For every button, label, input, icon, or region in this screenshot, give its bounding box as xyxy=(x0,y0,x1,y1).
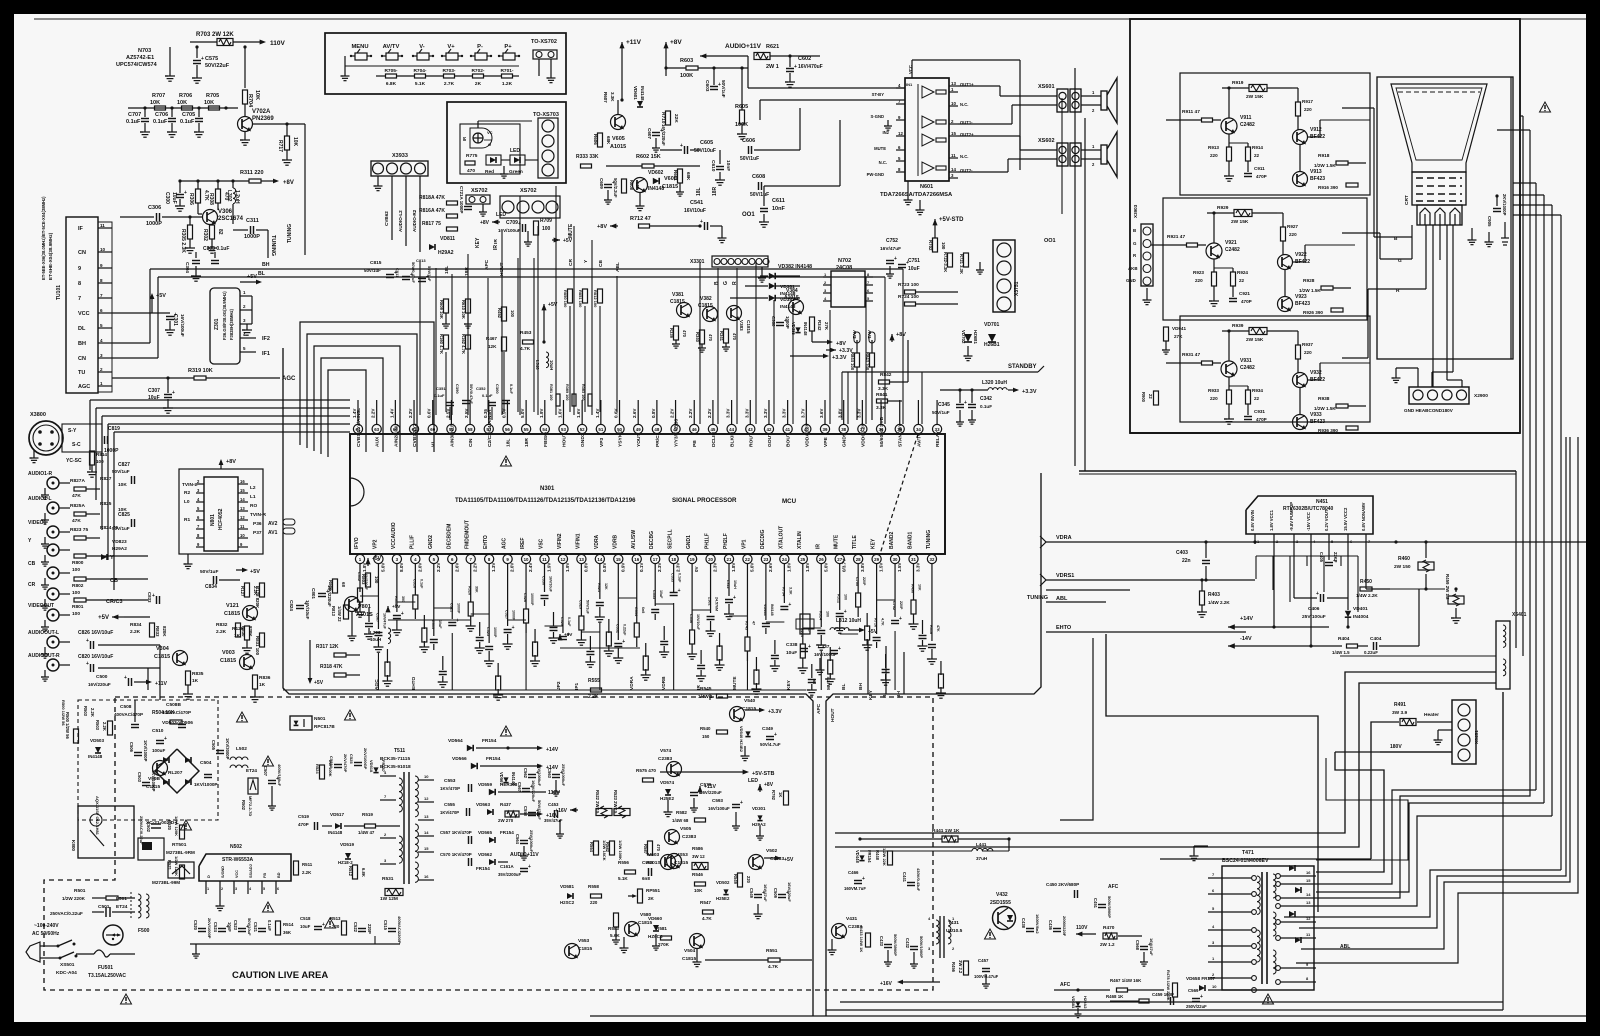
svg-text:1.9V: 1.9V xyxy=(547,562,552,572)
svg-text:VDDA3.3V: VDDA3.3V xyxy=(804,422,810,447)
svg-text:R311 220: R311 220 xyxy=(240,170,264,176)
svg-text:16V/100uF: 16V/100uF xyxy=(814,652,837,657)
svg-text:BD: BD xyxy=(277,872,281,878)
svg-text:15.5V VCC2: 15.5V VCC2 xyxy=(1343,507,1348,531)
svg-text:N601: N601 xyxy=(920,184,933,190)
N801 pin 7 xyxy=(196,528,204,530)
svg-text:1KV/470P: 1KV/470P xyxy=(440,810,459,815)
svg-text:ST-BY: ST-BY xyxy=(872,92,885,97)
transistor V384 A1015 xyxy=(789,300,804,315)
svg-text:BL: BL xyxy=(882,692,888,698)
svg-text:50V/1uF: 50V/1uF xyxy=(740,156,759,162)
svg-text:2.2V: 2.2V xyxy=(670,408,675,418)
svg-text:AGC: AGC xyxy=(78,384,90,390)
staircase path X5401 B xyxy=(835,683,1496,847)
svg-text:500V/1000P: 500V/1000P xyxy=(919,936,924,958)
CRT board outer box xyxy=(1130,19,1520,433)
svg-text:C1815: C1815 xyxy=(638,920,652,926)
warning triangle xyxy=(1540,102,1551,112)
svg-text:+: + xyxy=(862,876,865,882)
svg-text:R549: R549 xyxy=(733,874,738,885)
svg-text:H29A2: H29A2 xyxy=(438,250,454,256)
svg-text:V503: V503 xyxy=(648,852,660,858)
svg-text:+8V: +8V xyxy=(283,180,294,186)
svg-text:VD559: VD559 xyxy=(478,782,492,787)
svg-text:R342: R342 xyxy=(817,320,822,331)
svg-text:C337: C337 xyxy=(818,644,830,650)
svg-text:RPC817B: RPC817B xyxy=(314,724,335,729)
svg-text:100: 100 xyxy=(96,459,104,464)
flyback secondary pins xyxy=(1280,875,1316,877)
svg-text:+: + xyxy=(322,922,325,928)
svg-text:C313: C313 xyxy=(431,620,435,629)
R606 68K resistor xyxy=(598,133,603,147)
ground flyback xyxy=(1193,846,1195,856)
svg-text:VD602: VD602 xyxy=(648,170,664,176)
svg-text:0.1uF: 0.1uF xyxy=(153,119,168,125)
svg-text:15: 15 xyxy=(240,488,245,493)
N301 top pin 50 xyxy=(615,424,624,433)
svg-text:C466: C466 xyxy=(848,870,859,875)
svg-text:C504: C504 xyxy=(200,760,212,766)
V503 A101S xyxy=(667,854,682,869)
svg-text:18L: 18L xyxy=(696,187,702,196)
N301 top pin 53 xyxy=(559,424,568,433)
svg-text:C553: C553 xyxy=(444,778,456,784)
svg-text:2.2V: 2.2V xyxy=(436,562,441,572)
svg-text:R339: R339 xyxy=(669,328,674,339)
svg-text:R470: R470 xyxy=(1103,925,1115,931)
svg-text:R127: R127 xyxy=(240,586,245,597)
svg-text:50V/0.47uF: 50V/0.47uF xyxy=(469,384,473,405)
svg-text:C721A 1000P: C721A 1000P xyxy=(459,186,464,213)
svg-text:470P: 470P xyxy=(1256,174,1267,179)
svg-text:B: B xyxy=(714,281,720,285)
N301 top pin 45 xyxy=(708,424,717,433)
svg-text:56: 56 xyxy=(505,427,510,432)
svg-text:AUDIOOUT-L: AUDIOOUT-L xyxy=(28,630,59,636)
svg-text:AUDIOOUT-R: AUDIOOUT-R xyxy=(28,653,60,659)
svg-text:C507: C507 xyxy=(263,766,268,777)
svg-text:R919: R919 xyxy=(1232,80,1244,86)
audio amplifier N601 TDA7266 box xyxy=(905,78,949,181)
svg-text:470: 470 xyxy=(732,333,737,341)
svg-text:R503: R503 xyxy=(95,720,100,731)
svg-text:R601: R601 xyxy=(673,170,678,181)
svg-text:5.1K: 5.1K xyxy=(618,876,628,881)
svg-text:R923: R923 xyxy=(1193,270,1204,275)
svg-text:C450 2KV/680P: C450 2KV/680P xyxy=(1046,882,1079,887)
svg-text:C306: C306 xyxy=(148,205,161,211)
ground N801 xyxy=(187,554,189,564)
transistor V922 BF422 xyxy=(1278,255,1293,270)
svg-text:R916 390: R916 390 xyxy=(1318,185,1338,190)
transistor V381 C1815 xyxy=(677,303,692,318)
svg-text:12K: 12K xyxy=(604,583,608,590)
svg-text:+: + xyxy=(124,675,127,681)
svg-text:R501: R501 xyxy=(74,888,86,894)
svg-text:5.0V: 5.0V xyxy=(823,562,828,572)
svg-text:25V/1000uF: 25V/1000uF xyxy=(529,830,534,853)
svg-text:+8V: +8V xyxy=(896,332,906,338)
svg-text:13: 13 xyxy=(579,557,584,562)
svg-text:14: 14 xyxy=(951,167,956,172)
svg-text:5.0V: 5.0V xyxy=(380,562,385,572)
svg-text:17: 17 xyxy=(653,557,658,562)
N301 bottom pin 29 xyxy=(872,554,881,563)
svg-text:22: 22 xyxy=(1239,278,1245,283)
svg-text:2.3V: 2.3V xyxy=(713,562,718,572)
svg-text:C564: C564 xyxy=(515,834,520,845)
N301 top pin 60 xyxy=(428,424,437,433)
capacitor C575 50V/22uF xyxy=(196,47,198,58)
svg-text:+: + xyxy=(964,400,967,406)
resistor R704 10K xyxy=(243,90,248,104)
svg-text:FR154: FR154 xyxy=(482,738,497,744)
svg-text:25V/100uF: 25V/100uF xyxy=(1302,614,1326,620)
svg-text:1.5V: 1.5V xyxy=(897,562,902,572)
svg-text:R437: R437 xyxy=(500,802,511,807)
svg-text:12: 12 xyxy=(898,131,903,136)
svg-text:Heater: Heater xyxy=(1424,712,1439,718)
N601 right pin 1 xyxy=(949,91,958,93)
svg-text:EHTO: EHTO xyxy=(411,676,417,690)
svg-text:C508B: C508B xyxy=(166,702,181,708)
svg-text:1/4W 22: 1/4W 22 xyxy=(337,606,342,622)
svg-text:R816A 47K: R816A 47K xyxy=(419,208,445,214)
wire base bus xyxy=(128,107,238,109)
svg-text:R333 33K: R333 33K xyxy=(576,154,599,160)
svg-text:BH: BH xyxy=(896,691,902,698)
svg-text:-9.8V PUMPUP: -9.8V PUMPUP xyxy=(1289,502,1294,531)
svg-text:C506: C506 xyxy=(129,742,134,753)
svg-text:V553: V553 xyxy=(578,938,590,944)
svg-text:L502: L502 xyxy=(236,746,247,752)
svg-text:CIN: CIN xyxy=(468,438,474,447)
right box bottom edge wires xyxy=(1130,432,1520,434)
svg-text:R716: R716 xyxy=(874,618,878,627)
svg-text:R705-: R705- xyxy=(384,68,397,74)
component forest below IC N301 xyxy=(359,590,361,592)
svg-text:S-GND: S-GND xyxy=(871,114,885,119)
N301 top pin 54 xyxy=(540,424,549,433)
svg-text:250V/22uF: 250V/22uF xyxy=(1186,1004,1207,1009)
svg-text:KEY: KEY xyxy=(786,679,792,690)
svg-text:BH: BH xyxy=(858,683,864,690)
svg-text:110V: 110V xyxy=(1076,925,1088,931)
svg-text:KEY: KEY xyxy=(871,538,877,549)
svg-text:X3903: X3903 xyxy=(1133,204,1138,218)
N301 bottom pin 19 xyxy=(688,554,697,563)
svg-text:7: 7 xyxy=(100,293,103,298)
svg-text:44: 44 xyxy=(729,427,734,432)
N801 pin 6 xyxy=(196,519,204,521)
N801 pin 8 xyxy=(196,537,204,539)
svg-text:+: + xyxy=(700,219,703,225)
svg-text:R724 100: R724 100 xyxy=(898,294,919,300)
svg-text:C1815: C1815 xyxy=(670,299,685,305)
X3800 S-video connector xyxy=(29,421,63,455)
svg-text:R582: R582 xyxy=(605,842,610,853)
N301 bottom pin 7 xyxy=(466,554,475,563)
+11V power arrow xyxy=(621,42,623,52)
svg-text:AUDIO-R2: AUDIO-R2 xyxy=(412,209,417,232)
svg-text:C610: C610 xyxy=(710,160,716,172)
N301 top pin 37 xyxy=(858,424,867,433)
svg-text:PR/C3: PR/C3 xyxy=(655,432,661,447)
svg-text:R834: R834 xyxy=(130,622,142,628)
svg-text:C752: C752 xyxy=(886,238,898,244)
svg-text:R531: R531 xyxy=(382,876,394,882)
svg-text:HOUT: HOUT xyxy=(561,433,567,447)
svg-text:3.3K: 3.3K xyxy=(610,92,615,102)
svg-text:L312: L312 xyxy=(726,580,730,589)
svg-text:C524: C524 xyxy=(213,922,218,933)
svg-text:2W 15K: 2W 15K xyxy=(1246,337,1264,343)
svg-text:+11V: +11V xyxy=(626,39,642,46)
svg-text:+8V: +8V xyxy=(670,39,682,46)
svg-text:L1: L1 xyxy=(250,494,256,500)
N801 pin 2 xyxy=(196,483,204,485)
connector X3903 xyxy=(1141,224,1153,286)
svg-text:C549: C549 xyxy=(749,888,754,899)
svg-text:58: 58 xyxy=(468,427,473,432)
svg-text:PLLIF: PLLIF xyxy=(409,535,415,549)
EHTO line xyxy=(1046,631,1246,633)
svg-text:160V/220uF: 160V/220uF xyxy=(531,780,536,803)
svg-text:10uH: 10uH xyxy=(370,637,382,642)
svg-text:C161A: C161A xyxy=(500,864,514,869)
svg-text:+: + xyxy=(678,588,681,594)
svg-text:N501: N501 xyxy=(314,716,326,722)
svg-text:C606: C606 xyxy=(742,138,755,144)
svg-text:1.5V: 1.5V xyxy=(879,562,884,572)
svg-text:1/2W 1.5K: 1/2W 1.5K xyxy=(1299,288,1321,293)
svg-text:FR154: FR154 xyxy=(500,830,514,835)
svg-text:CVBS4/Y4/AIN5L: CVBS4/Y4/AIN5L xyxy=(356,408,362,447)
svg-text:VDRS1: VDRS1 xyxy=(1056,573,1074,579)
svg-text:R830: R830 xyxy=(241,626,246,637)
svg-text:C509: C509 xyxy=(773,888,778,899)
svg-text:X2900: X2900 xyxy=(1474,393,1488,399)
svg-text:53: 53 xyxy=(561,427,566,432)
svg-text:L320 10uH: L320 10uH xyxy=(982,380,1007,386)
svg-text:15: 15 xyxy=(616,557,621,562)
svg-text:C700: C700 xyxy=(855,577,859,586)
svg-text:H26B1: H26B1 xyxy=(984,342,1000,348)
stage output wire xyxy=(1307,379,1320,381)
V553 C1815 left xyxy=(565,944,580,959)
svg-text:+: + xyxy=(164,736,167,742)
svg-text:AV2: AV2 xyxy=(268,521,278,527)
svg-text:A101S: A101S xyxy=(646,860,661,866)
svg-text:R929: R929 xyxy=(1217,205,1229,211)
svg-text:5.0V: 5.0V xyxy=(520,408,525,418)
svg-text:FBISO: FBISO xyxy=(543,432,549,447)
svg-text:0.6V: 0.6V xyxy=(427,408,432,418)
svg-text:DCLIN: DCLIN xyxy=(711,432,717,447)
inductor L302 1.2uH xyxy=(233,188,236,193)
left vertical bundle xyxy=(89,400,91,470)
N601 opamp triangles xyxy=(922,86,934,98)
svg-text:N.C.: N.C. xyxy=(879,160,887,165)
svg-text:R813: R813 xyxy=(331,606,336,617)
svg-text:SECPLL: SECPLL xyxy=(668,529,674,549)
svg-text:R520: R520 xyxy=(167,820,172,831)
svg-text:500V/3900P: 500V/3900P xyxy=(1107,896,1112,918)
svg-text:VD448: VD448 xyxy=(855,850,860,863)
+14V arrow xyxy=(1228,624,1235,629)
N301 top pin 58 xyxy=(465,424,474,433)
svg-text:+: + xyxy=(794,64,797,70)
svg-text:C605: C605 xyxy=(700,140,713,146)
svg-text:10000P: 10000P xyxy=(530,593,534,606)
svg-text:IN4148: IN4148 xyxy=(640,86,645,101)
svg-text:1.6V: 1.6V xyxy=(576,408,581,418)
svg-text:VPE: VPE xyxy=(823,436,829,447)
svg-text:1000P: 1000P xyxy=(244,234,260,240)
ground xyxy=(192,77,202,79)
fuse FU501 T3.15AL250VAC xyxy=(76,953,94,955)
keypad wires xyxy=(344,56,346,66)
svg-text:2.7K: 2.7K xyxy=(444,81,455,87)
svg-text:+: + xyxy=(512,625,515,631)
grounds secondary xyxy=(559,820,561,834)
svg-text:C827: C827 xyxy=(118,462,130,468)
svg-text:BF423: BF423 xyxy=(1310,176,1325,182)
svg-text:+5V: +5V xyxy=(98,615,109,621)
svg-text:IR: IR xyxy=(815,544,821,549)
svg-text:IR: IR xyxy=(493,245,499,250)
svg-text:N451: N451 xyxy=(1316,499,1328,505)
svg-text:1000P: 1000P xyxy=(512,610,516,621)
svg-text:50V/1uF: 50V/1uF xyxy=(721,80,726,98)
svg-text:+: + xyxy=(1316,591,1319,597)
svg-text:4.7K: 4.7K xyxy=(520,346,531,352)
svg-text:YC-SC: YC-SC xyxy=(66,458,82,464)
N301 top pin 56 xyxy=(503,424,512,433)
svg-text:2K: 2K xyxy=(475,81,482,87)
svg-text:100: 100 xyxy=(825,611,829,617)
N601 right pin 2 xyxy=(949,123,958,125)
svg-text:R722-3.3K: R722-3.3K xyxy=(943,252,948,272)
svg-text:R556: R556 xyxy=(618,860,629,865)
svg-text:+8V: +8V xyxy=(836,341,846,347)
svg-text:C403: C403 xyxy=(1176,550,1188,556)
svg-text:100: 100 xyxy=(72,567,80,573)
N801 pin 9 xyxy=(196,546,204,548)
svg-text:R702-: R702- xyxy=(471,68,484,74)
svg-text:10uF: 10uF xyxy=(300,924,311,929)
svg-text:2.2V: 2.2V xyxy=(371,408,376,418)
svg-text:IF: IF xyxy=(78,226,84,232)
svg-text:50V/2.2uF: 50V/2.2uF xyxy=(613,178,618,198)
svg-text:R806: R806 xyxy=(328,580,333,591)
svg-text:R817 75: R817 75 xyxy=(422,221,441,227)
N301 bottom pin 10 xyxy=(521,554,530,563)
svg-text:+: + xyxy=(184,190,187,196)
svg-text:10K: 10K xyxy=(204,100,214,106)
svg-text:1000P: 1000P xyxy=(456,603,460,614)
svg-text:C815: C815 xyxy=(370,260,382,266)
verticals from top pins up to MCU area xyxy=(699,262,701,424)
svg-text:R500 1/2W 56: R500 1/2W 56 xyxy=(65,712,70,739)
svg-text:C338: C338 xyxy=(786,642,798,648)
grounds CRT xyxy=(1471,228,1473,240)
svg-text:11: 11 xyxy=(100,223,105,228)
svg-text:1/4W 1: 1/4W 1 xyxy=(698,694,713,699)
svg-text:22: 22 xyxy=(745,557,750,562)
svg-text:V382: V382 xyxy=(700,296,712,302)
svg-text:1/4W 2.2K: 1/4W 2.2K xyxy=(1208,600,1230,605)
svg-text:10uF: 10uF xyxy=(908,266,920,272)
svg-text:R609 10K: R609 10K xyxy=(439,300,444,319)
ground stage xyxy=(1228,404,1230,419)
svg-text:JP2: JP2 xyxy=(556,681,562,690)
svg-text:C328: C328 xyxy=(560,617,564,626)
svg-text:TUNING: TUNING xyxy=(1027,595,1048,601)
svg-text:V431: V431 xyxy=(846,916,858,922)
svg-text:9: 9 xyxy=(100,263,103,268)
transistor V801 A101S xyxy=(345,597,360,612)
svg-text:2SC1674: 2SC1674 xyxy=(218,216,244,222)
svg-text:V+: V+ xyxy=(447,44,455,50)
svg-text:C335: C335 xyxy=(671,573,675,582)
svg-text:R519: R519 xyxy=(362,812,373,817)
IC N451 RTV6302B/UTC78040 xyxy=(1246,496,1373,534)
svg-text:R513: R513 xyxy=(330,916,341,921)
svg-text:6.8K: 6.8K xyxy=(361,868,366,877)
svg-text:C603: C603 xyxy=(704,80,710,92)
svg-text:4.7K: 4.7K xyxy=(881,618,885,626)
svg-text:C541: C541 xyxy=(690,200,703,206)
svg-text:13: 13 xyxy=(240,506,245,511)
svg-text:VD658 FR157: VD658 FR157 xyxy=(1186,976,1216,981)
svg-text:HCF4052: HCF4052 xyxy=(218,508,224,530)
svg-text:+5V: +5V xyxy=(784,857,794,863)
svg-text:50V/1uF: 50V/1uF xyxy=(932,410,950,415)
svg-text:F500: F500 xyxy=(138,928,150,934)
svg-text:23: 23 xyxy=(763,557,768,562)
svg-text:VD574: VD574 xyxy=(660,780,674,785)
svg-text:+: + xyxy=(838,646,841,652)
svg-text:VD564: VD564 xyxy=(448,738,463,744)
svg-text:R2: R2 xyxy=(184,490,190,496)
svg-text:0.8V: 0.8V xyxy=(651,408,656,418)
svg-text:R521: R521 xyxy=(167,860,172,871)
N301 bottom pin 18 xyxy=(669,554,678,563)
N301 top pin 44 xyxy=(727,424,736,433)
svg-text:22: 22 xyxy=(1148,394,1153,399)
svg-text:R800: R800 xyxy=(72,560,84,566)
svg-text:6: 6 xyxy=(277,887,279,891)
svg-text:T471: T471 xyxy=(1242,850,1254,856)
N301 top pin 36 xyxy=(876,424,885,433)
svg-text:HZ18-2: HZ18-2 xyxy=(338,860,353,865)
staircase flyback pin13 xyxy=(1316,816,1552,906)
svg-text:26: 26 xyxy=(819,557,824,562)
svg-text:R514: R514 xyxy=(283,922,294,927)
svg-text:18R: 18R xyxy=(712,186,718,196)
svg-text:R841: R841 xyxy=(876,392,888,398)
svg-text:2.2V: 2.2V xyxy=(688,408,693,418)
degauss left box xyxy=(78,700,218,820)
svg-text:10uH: 10uH xyxy=(549,360,554,370)
svg-text:100: 100 xyxy=(510,310,515,318)
svg-text:R456: R456 xyxy=(951,962,956,973)
svg-text:C834: C834 xyxy=(205,584,217,590)
svg-text:R933: R933 xyxy=(1208,388,1219,393)
